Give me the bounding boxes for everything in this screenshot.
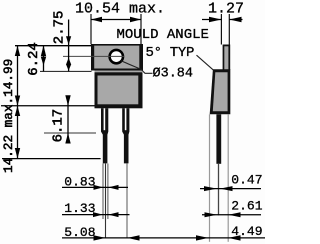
svg-text:4.49: 4.49 (231, 224, 262, 239)
dim 14.99 and 14.22 line (17, 46, 19, 159)
side view tab outer (223, 45, 231, 71)
dim 10.54 line (91, 19, 141, 21)
dim 0.83 line (62, 186, 128, 188)
dim 6.17 line (67, 96, 69, 143)
dim 5.08 left arrow (94, 235, 106, 240)
svg-text:10.54 max.: 10.54 max. (75, 1, 165, 18)
dim 1.27 left arrow (209, 17, 221, 22)
mounting hole (110, 50, 123, 63)
right lead extension line (126, 164, 128, 239)
dim 0.47 line (200, 188, 261, 190)
svg-text:5.08: 5.08 (64, 225, 95, 240)
left lead extension line a (102, 164, 104, 220)
right lead hollow slit (125, 108, 127, 130)
tab top extension line (15, 45, 91, 47)
dim 0.83 left arrow (94, 185, 104, 190)
svg-text:Ø3.84: Ø3.84 (153, 66, 194, 81)
dim 2.75 line (68, 20, 70, 72)
side view tab fill (224, 46, 228, 70)
front view tab outer (91, 44, 143, 71)
dim 1.27 left extension (220, 14, 222, 45)
dim 6.24 top arrow (41, 45, 46, 56)
side view lead (216, 114, 221, 164)
dim 6.17 top arrow (65, 95, 70, 106)
gap strip between tab and body (95, 71, 143, 73)
left lead hollow slit (104, 108, 106, 130)
right lead outline and shank (122, 108, 129, 163)
dim 14.99 bottom arrow (15, 96, 20, 106)
side view right extension line (227, 114, 229, 242)
svg-text:5° TYP: 5° TYP (146, 45, 195, 61)
dim 2.61 line (202, 214, 261, 216)
dim 10.54 right arrow (130, 17, 141, 22)
side view body fill (213, 72, 228, 111)
dim 14.22 bottom arrow (15, 148, 20, 159)
dim 10.54 right extension (140, 14, 142, 44)
body bottom extension line (44, 132, 96, 134)
svg-text:0.47: 0.47 (231, 172, 262, 187)
dim 2.61 right arrow (228, 212, 240, 217)
svg-text:14.22 max.14.99: 14.22 max.14.99 (1, 59, 16, 173)
svg-text:1.33: 1.33 (64, 201, 95, 216)
leader to hole dia label (121, 61, 153, 74)
leader for mould angle note (197, 55, 214, 70)
svg-text:MOULD ANGLE: MOULD ANGLE (117, 27, 209, 43)
dim 1.33 left arrow (93, 212, 103, 217)
left lead outline and shank (101, 108, 108, 163)
dim 0.83 right arrow (108, 185, 118, 190)
dim 1.27 line right (229, 19, 242, 21)
dim 4.49 left arrow (196, 235, 209, 240)
hole centerline (63, 55, 124, 57)
front view body fill (98, 76, 139, 105)
side view lead extension line (218, 164, 220, 216)
dim 6.17 bottom arrow (65, 133, 70, 144)
dim 5.08 and 4.49 line (62, 237, 265, 239)
dim 1.33 line (62, 214, 130, 216)
dim 0.47 right arrow (220, 186, 233, 191)
dim 6.24 line (43, 46, 45, 72)
dim 14.22 top arrow (15, 106, 20, 116)
dim 1.33 right arrow (108, 212, 118, 217)
svg-text:6.24: 6.24 (26, 42, 42, 76)
dim 0.47 left arrow (204, 186, 217, 191)
left lead extension line c (107, 164, 109, 220)
front view body outer (95, 72, 143, 108)
dim 1.27 right arrow (229, 17, 241, 22)
left lead extension line b (105, 164, 107, 239)
dim 2.61 left arrow (205, 212, 218, 217)
svg-text:0.83: 0.83 (64, 174, 95, 189)
svg-text:2.75: 2.75 (52, 11, 68, 45)
svg-text:1.27: 1.27 (208, 1, 244, 18)
dim 6.24 bottom arrow (41, 57, 46, 66)
dim 1.27 line left (202, 19, 222, 21)
dim 10.54 left extension (90, 14, 92, 44)
dim 10.54 left arrow (91, 17, 102, 22)
extra arrow at tab bottom (66, 64, 71, 70)
dim 4.49 right arrow (228, 235, 240, 240)
svg-text:6.17: 6.17 (51, 109, 67, 143)
side view left extension line (209, 114, 211, 242)
dim 2.75 lower arrow (66, 58, 71, 65)
lead tip extension line (2, 158, 101, 160)
front view tab fill (94, 46, 139, 69)
svg-text:2.61: 2.61 (231, 198, 262, 213)
dim 5.08 right arrow (127, 235, 139, 240)
mid reference line (1, 105, 95, 107)
dim 1.27 right extension (228, 14, 230, 45)
dim 14.99 top arrow (15, 46, 20, 56)
side view body outer (210, 69, 231, 114)
tab bottom extension line (40, 70, 92, 72)
dim 2.75 upper arrow (66, 36, 71, 45)
